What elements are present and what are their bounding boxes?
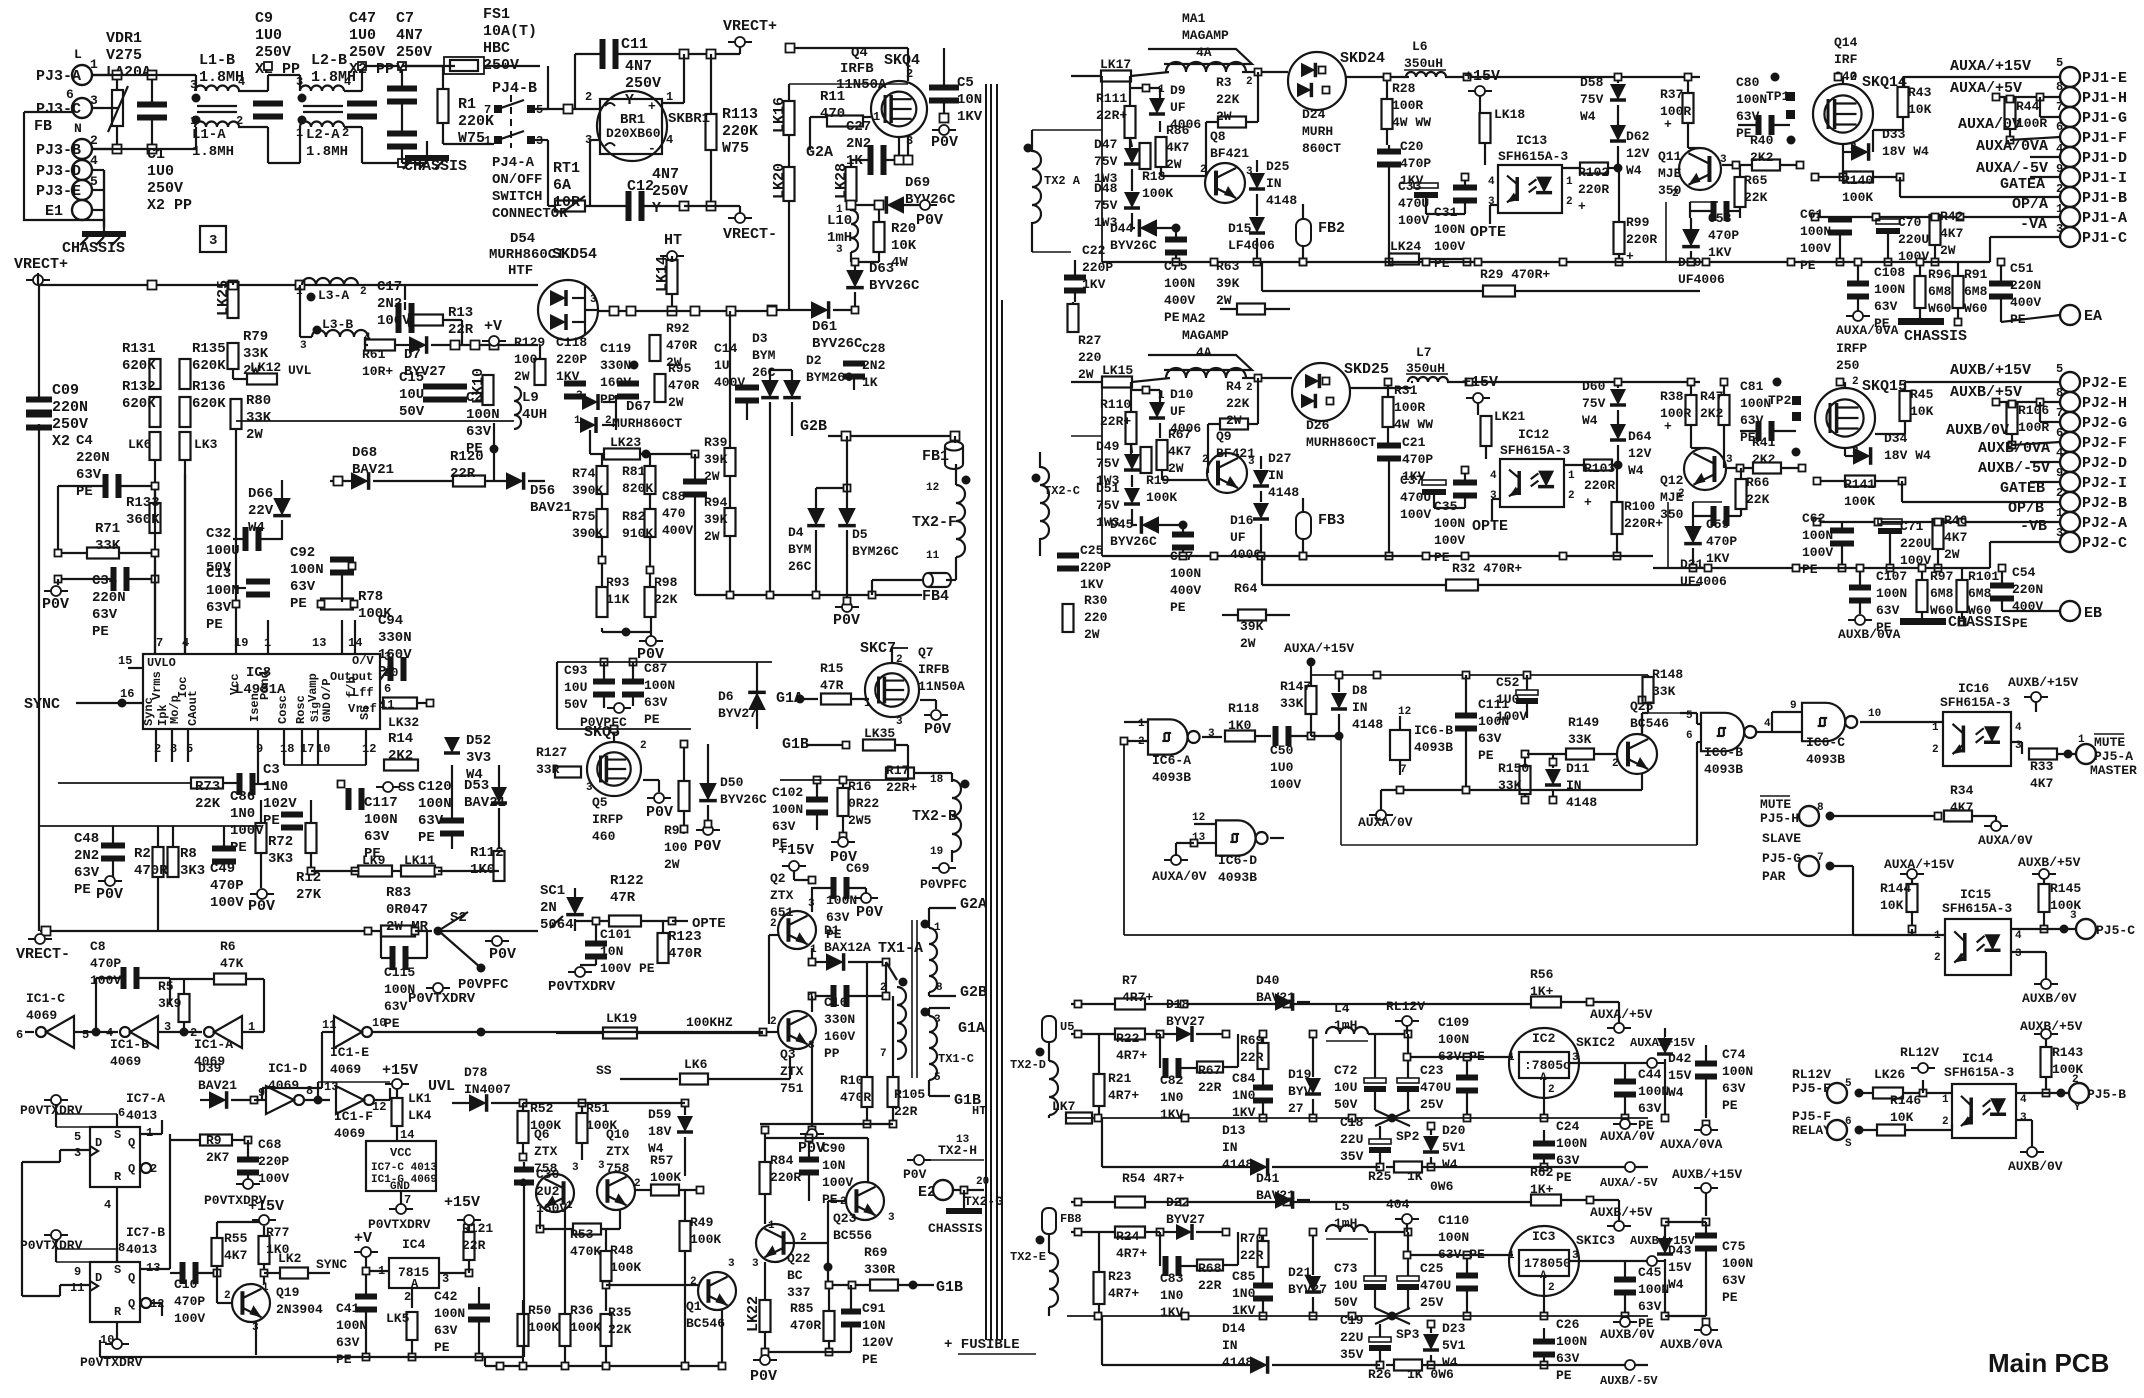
- svg-text:ZTX: ZTX: [770, 888, 794, 903]
- svg-text:4N7: 4N7: [625, 58, 652, 75]
- wire Q4 drain: [790, 47, 908, 49]
- svg-text:3K3: 3K3: [268, 851, 293, 867]
- resistor R13: [409, 315, 443, 326]
- svg-text:L3-B: L3-B: [322, 317, 353, 332]
- svg-text:22R: 22R: [1198, 1278, 1222, 1293]
- svg-text:6M8: 6M8: [1930, 586, 1954, 601]
- core L2: [303, 105, 343, 107]
- svg-text:AUXB/+15V: AUXB/+15V: [1672, 1167, 1742, 1182]
- svg-text:BAX12A: BAX12A: [824, 940, 871, 955]
- resistor R20: [874, 222, 885, 252]
- svg-text:2W: 2W: [1168, 461, 1184, 476]
- svg-text:MUTE: MUTE: [1760, 797, 1791, 812]
- svg-text:D51: D51: [1096, 481, 1120, 496]
- svg-text:2K2: 2K2: [1752, 452, 1776, 467]
- svg-text:+15V: +15V: [778, 842, 814, 859]
- gate IC6-B box: [1390, 730, 1410, 760]
- svg-text:3: 3: [586, 782, 593, 794]
- svg-text:R8: R8: [180, 846, 197, 862]
- svg-text:D9: D9: [1170, 83, 1186, 98]
- svg-text:6: 6: [1845, 1116, 1852, 1128]
- svg-text:IN: IN: [1268, 468, 1284, 483]
- svg-text:27: 27: [1288, 1101, 1304, 1116]
- svg-text:7: 7: [484, 103, 491, 117]
- svg-text:BAV21: BAV21: [198, 1078, 237, 1093]
- svg-text:EA: EA: [2084, 308, 2102, 325]
- svg-text:R62: R62: [1530, 1165, 1554, 1180]
- svg-text:PJ5-H: PJ5-H: [1760, 811, 1799, 826]
- node P0V Q5: [647, 797, 671, 799]
- svg-text:6: 6: [2056, 120, 2063, 134]
- svg-text:470: 470: [820, 106, 845, 122]
- switch PJ4-A: [494, 136, 502, 144]
- svg-text:OP/A: OP/A: [2012, 196, 2048, 213]
- svg-text:4: 4: [666, 133, 673, 147]
- svg-text:C69: C69: [846, 861, 870, 876]
- svg-text:10K: 10K: [1910, 404, 1934, 419]
- svg-text:HT: HT: [972, 1104, 986, 1118]
- svg-text:3: 3: [590, 294, 597, 306]
- svg-text:860CT: 860CT: [1302, 141, 1341, 156]
- svg-text:FB4: FB4: [922, 588, 949, 605]
- svg-text:BYM26C: BYM26C: [852, 544, 899, 559]
- svg-text:C35: C35: [1434, 499, 1458, 514]
- svg-text:R50: R50: [528, 1303, 552, 1318]
- capacitor C9: [253, 101, 283, 107]
- svg-text:9: 9: [1790, 700, 1797, 712]
- svg-text:W4: W4: [1668, 1277, 1684, 1292]
- ferrite bead FB4: [923, 573, 933, 587]
- svg-text:+15V: +15V: [1464, 68, 1500, 85]
- svg-text:5: 5: [74, 1130, 81, 1144]
- svg-text:C72: C72: [1334, 1063, 1358, 1078]
- ferrite bead FB1: [945, 442, 963, 451]
- IC IC8 L4981A: [143, 654, 380, 729]
- svg-text:IC1-B: IC1-B: [110, 1037, 149, 1052]
- svg-text:2: 2: [1200, 164, 1207, 176]
- svg-text:G2B: G2B: [800, 418, 827, 435]
- svg-text:LK23: LK23: [610, 435, 641, 450]
- svg-text:5: 5: [2056, 56, 2063, 70]
- svg-text:R135: R135: [192, 341, 226, 357]
- svg-text:D: D: [95, 1271, 102, 1285]
- svg-text:751: 751: [780, 1081, 804, 1096]
- svg-text:R17: R17: [886, 763, 909, 778]
- svg-text:AUXA/0V: AUXA/0V: [1600, 1129, 1655, 1144]
- svg-text:2: 2: [1672, 188, 1679, 200]
- svg-text:G2A: G2A: [960, 896, 987, 913]
- wire Q5 drain: [613, 729, 615, 742]
- svg-text:15V: 15V: [1668, 1068, 1692, 1083]
- svg-text:D26: D26: [1306, 418, 1330, 433]
- isolation barrier lines: [985, 84, 987, 1340]
- svg-text:22R+: 22R+: [886, 780, 917, 795]
- svg-text:D61: D61: [812, 319, 837, 335]
- svg-text:35V: 35V: [1340, 1149, 1364, 1164]
- svg-text:SP2: SP2: [1396, 1129, 1420, 1144]
- svg-text:15: 15: [118, 654, 132, 668]
- svg-text:PJ5-E: PJ5-E: [1792, 1081, 1831, 1096]
- svg-text:D16: D16: [1230, 513, 1254, 528]
- svg-text:9: 9: [74, 1265, 81, 1279]
- svg-text:RL12V: RL12V: [1386, 999, 1425, 1014]
- svg-text:IN: IN: [1352, 700, 1368, 715]
- svg-text:4K7: 4K7: [1166, 140, 1189, 155]
- svg-text:10A(T): 10A(T): [483, 23, 537, 40]
- svg-text:C42: C42: [434, 1289, 458, 1304]
- svg-text:G1A: G1A: [958, 1020, 985, 1037]
- svg-text:100V PE: 100V PE: [600, 961, 655, 976]
- svg-text:+V: +V: [484, 318, 502, 335]
- svg-text:AUXB/0V: AUXB/0V: [2022, 991, 2077, 1006]
- svg-text:100V: 100V: [1496, 709, 1527, 724]
- svg-text:3: 3: [728, 1258, 735, 1270]
- inductor L3-B: [312, 330, 368, 337]
- svg-text:2W: 2W: [1240, 636, 1256, 651]
- svg-text:7: 7: [2056, 406, 2063, 420]
- svg-text:SKIC3: SKIC3: [1576, 1233, 1615, 1248]
- wire L1A out: [238, 126, 268, 128]
- svg-text:LK35: LK35: [864, 726, 895, 741]
- svg-text:R2: R2: [134, 846, 151, 862]
- svg-text:6A: 6A: [553, 177, 571, 194]
- svg-text:Sync: Sync: [142, 697, 156, 726]
- svg-text:2: 2: [2072, 1074, 2079, 1086]
- svg-text:100K: 100K: [690, 1232, 721, 1247]
- svg-text:UF4006: UF4006: [1678, 272, 1725, 287]
- svg-text:BYV26C: BYV26C: [869, 278, 920, 294]
- svg-text:R14: R14: [388, 731, 413, 747]
- svg-text:100N: 100N: [418, 796, 452, 812]
- svg-text:220: 220: [1078, 350, 1102, 365]
- svg-text:O/V: O/V: [352, 654, 374, 668]
- svg-text:R46: R46: [1944, 513, 1968, 528]
- svg-text:5: 5: [2056, 362, 2063, 376]
- svg-text:IN: IN: [1222, 1338, 1238, 1353]
- svg-text:R16: R16: [848, 779, 872, 794]
- svg-text:P0VTXDRV: P0VTXDRV: [368, 1217, 431, 1232]
- svg-text:R97: R97: [1930, 569, 1953, 584]
- svg-text:R19: R19: [1146, 473, 1170, 488]
- svg-text:R66: R66: [1746, 475, 1770, 490]
- svg-text:SKQ14: SKQ14: [1862, 74, 1907, 91]
- svg-text:AUXA/0V: AUXA/0V: [1958, 116, 2021, 133]
- svg-text:4R7+: 4R7+: [1108, 1088, 1139, 1103]
- flipflop IC7-A 4013: [90, 1127, 140, 1187]
- svg-text:R42: R42: [1940, 209, 1964, 224]
- chassis ground input: [103, 217, 105, 231]
- svg-text:2U2: 2U2: [536, 1184, 560, 1199]
- svg-text:PE: PE: [1722, 1098, 1738, 1113]
- svg-text:PE: PE: [1434, 550, 1450, 565]
- svg-text:2N2: 2N2: [862, 358, 886, 373]
- svg-text:4148: 4148: [1268, 485, 1299, 500]
- svg-text:BAV21: BAV21: [530, 500, 572, 516]
- svg-text:P0V: P0V: [248, 898, 275, 915]
- svg-text:P0V: P0V: [798, 1140, 825, 1157]
- svg-text:C85: C85: [1232, 1269, 1256, 1284]
- svg-text:7: 7: [1817, 852, 1824, 864]
- svg-text:W75: W75: [722, 140, 749, 157]
- svg-text:4K7: 4K7: [1168, 444, 1191, 459]
- svg-text:GND: GND: [322, 702, 334, 722]
- svg-text:C3: C3: [263, 762, 280, 778]
- svg-text:10N: 10N: [822, 1158, 845, 1173]
- wire B left rail: [1101, 382, 1103, 556]
- svg-text:R112: R112: [470, 845, 504, 861]
- svg-text:3: 3: [74, 1146, 81, 1160]
- svg-text:R78: R78: [358, 589, 383, 605]
- svg-text:Mo/p: Mo/p: [168, 695, 182, 724]
- svg-text:220K: 220K: [722, 123, 758, 140]
- svg-text:R148: R148: [1652, 667, 1683, 682]
- svg-text:IC4: IC4: [402, 1237, 426, 1252]
- svg-text:SP3: SP3: [1396, 1327, 1420, 1342]
- svg-text:D4: D4: [788, 525, 804, 540]
- svg-text:IC3: IC3: [1532, 1229, 1556, 1244]
- svg-text:250V: 250V: [652, 183, 688, 200]
- svg-text:1U0: 1U0: [1270, 760, 1294, 775]
- svg-text:HT: HT: [664, 232, 682, 249]
- svg-text:22U: 22U: [1340, 1330, 1363, 1345]
- svg-text:1U0: 1U0: [349, 27, 376, 44]
- svg-text:R4: R4: [1226, 379, 1242, 394]
- svg-text:IC7-B: IC7-B: [126, 1225, 165, 1240]
- svg-text:PE: PE: [822, 1192, 838, 1207]
- svg-text:UF: UF: [1230, 530, 1246, 545]
- svg-text:9: 9: [2056, 466, 2063, 480]
- svg-text:PJ2-F: PJ2-F: [2082, 435, 2127, 452]
- svg-text:BAV21: BAV21: [352, 462, 394, 478]
- svg-text:1: 1: [836, 204, 843, 216]
- link LK15: [1102, 377, 1132, 388]
- connector PJ3-E: [72, 180, 92, 200]
- svg-text:R40: R40: [1750, 133, 1774, 148]
- svg-text:5: 5: [1686, 710, 1693, 722]
- svg-text:C13: C13: [206, 566, 231, 582]
- wire 0V rail IC2: [1067, 1117, 1648, 1119]
- svg-text:100V: 100V: [1800, 241, 1831, 256]
- svg-text:R91: R91: [1964, 267, 1988, 282]
- svg-text:R79: R79: [243, 329, 268, 345]
- diode D5 BYM26C: [838, 508, 856, 526]
- svg-text:AUXB/+15V: AUXB/+15V: [1950, 362, 2031, 379]
- svg-text:100V: 100V: [1900, 553, 1931, 568]
- svg-text:100V: 100V: [1400, 507, 1431, 522]
- svg-text:R10: R10: [840, 1073, 864, 1088]
- svg-text:AUXA/+5V: AUXA/+5V: [1590, 1007, 1653, 1022]
- svg-text:2: 2: [1678, 488, 1685, 500]
- svg-text:C101: C101: [600, 927, 631, 942]
- svg-text:IC12: IC12: [1518, 427, 1549, 442]
- svg-text:2W: 2W: [704, 529, 720, 544]
- svg-text:50V: 50V: [1334, 1295, 1358, 1310]
- svg-text:+: +: [1664, 419, 1672, 434]
- svg-text:SKQ4: SKQ4: [884, 52, 920, 69]
- svg-text:P0V: P0V: [931, 134, 958, 151]
- svg-text:BC546: BC546: [1630, 716, 1669, 731]
- svg-text:P0V: P0V: [833, 612, 860, 629]
- svg-text:L5: L5: [1334, 1199, 1350, 1214]
- svg-text:470P: 470P: [1400, 156, 1431, 171]
- connector EA: [2001, 315, 2060, 322]
- svg-text:3: 3: [2070, 910, 2077, 922]
- svg-text:4: 4: [104, 1198, 111, 1212]
- svg-text:63V: 63V: [1556, 1351, 1580, 1366]
- svg-text:250V: 250V: [255, 44, 291, 61]
- svg-text:33K: 33K: [1652, 684, 1676, 699]
- svg-text:Q19: Q19: [276, 1285, 300, 1300]
- svg-text:+: +: [1664, 117, 1672, 132]
- svg-text:360K: 360K: [126, 512, 160, 528]
- svg-text:102V: 102V: [263, 796, 297, 812]
- svg-text:AUXA/-5V: AUXA/-5V: [1976, 160, 2048, 177]
- svg-text:R20: R20: [891, 221, 916, 237]
- svg-text:100K: 100K: [1142, 186, 1173, 201]
- capacitor C09: [26, 397, 52, 403]
- svg-text:4W WW: 4W WW: [1394, 417, 1433, 432]
- svg-text:33K: 33K: [1280, 696, 1304, 711]
- svg-text:P0V: P0V: [489, 946, 516, 963]
- connector PJ3-A: [72, 65, 92, 85]
- svg-text:470P: 470P: [1402, 452, 1433, 467]
- svg-text:63V: 63V: [336, 1335, 360, 1350]
- svg-text:100N: 100N: [336, 1318, 367, 1333]
- svg-text:3: 3: [300, 340, 307, 352]
- svg-text:PJ1-F: PJ1-F: [2082, 130, 2127, 147]
- svg-text:13: 13: [312, 636, 326, 650]
- svg-text:PE: PE: [1556, 1170, 1572, 1185]
- svg-text:100N: 100N: [1438, 1230, 1469, 1245]
- svg-text:100N: 100N: [434, 1306, 465, 1321]
- svg-text:11K: 11K: [606, 592, 630, 607]
- svg-text:2K2: 2K2: [1700, 406, 1724, 421]
- svg-text:CHASSIS: CHASSIS: [62, 240, 125, 257]
- svg-text:337: 337: [787, 1285, 810, 1300]
- node P0V dividers: [639, 640, 663, 642]
- svg-text:C7: C7: [396, 10, 414, 27]
- svg-text:8: 8: [936, 982, 943, 994]
- svg-text:11: 11: [322, 1018, 336, 1032]
- diode D56 BAV21: [506, 472, 524, 490]
- svg-text:LK7: LK7: [1052, 1099, 1075, 1114]
- svg-text:AUXA/0VA: AUXA/0VA: [1660, 1137, 1723, 1152]
- svg-text:LK22: LK22: [745, 1296, 762, 1332]
- svg-text:12V: 12V: [1626, 146, 1650, 161]
- svg-text:SS: SS: [358, 706, 372, 720]
- svg-text:IC6-D: IC6-D: [1218, 853, 1257, 868]
- svg-text:100V: 100V: [174, 1311, 205, 1326]
- svg-text:20: 20: [976, 1176, 989, 1188]
- svg-text:75V: 75V: [1096, 456, 1120, 471]
- svg-text:D66: D66: [248, 486, 273, 502]
- link LK16: [784, 101, 795, 135]
- svg-text:R41: R41: [1752, 435, 1776, 450]
- rectifier SKD25: [1292, 363, 1350, 421]
- svg-text:4R7+: 4R7+: [1116, 1246, 1147, 1261]
- svg-text:C102: C102: [772, 785, 803, 800]
- svg-text:C17: C17: [377, 279, 402, 295]
- connector PJ3-D: [72, 160, 92, 180]
- svg-text:2W: 2W: [668, 395, 684, 410]
- svg-text:Q2: Q2: [770, 871, 786, 886]
- svg-text:PJ1-I: PJ1-I: [2082, 170, 2127, 187]
- svg-text:470P: 470P: [174, 1294, 205, 1309]
- wire A mid rail: [1102, 261, 1653, 263]
- svg-text:63V: 63V: [1722, 1273, 1746, 1288]
- svg-text:1: 1: [1568, 470, 1575, 482]
- svg-text:L2-B: L2-B: [311, 52, 347, 69]
- svg-text:1: 1: [1932, 722, 1939, 734]
- node AUXA/-5V: [1625, 1166, 1648, 1168]
- svg-text:R131: R131: [122, 341, 156, 357]
- svg-text:AUXA/+5V: AUXA/+5V: [1950, 80, 2022, 97]
- svg-text:8: 8: [1817, 802, 1824, 814]
- svg-text:MAGAMP: MAGAMP: [1182, 328, 1229, 343]
- svg-text:R23: R23: [1108, 1269, 1132, 1284]
- svg-text:RELAY: RELAY: [1792, 1123, 1831, 1138]
- wire IC7A pins: [60, 1149, 90, 1151]
- svg-text:X2 PP: X2 PP: [255, 61, 300, 78]
- inverter IC1-B: [130, 1016, 158, 1048]
- svg-text:C14: C14: [714, 341, 738, 356]
- svg-text:3: 3: [576, 390, 583, 402]
- svg-text:470P: 470P: [210, 878, 244, 894]
- svg-text:C9: C9: [255, 10, 273, 27]
- svg-text:63V: 63V: [1556, 1153, 1580, 1168]
- svg-text:C21: C21: [1402, 435, 1426, 450]
- svg-text:2: 2: [520, 1178, 527, 1190]
- svg-text:1N0: 1N0: [263, 779, 288, 795]
- transformer TX2-B: [952, 780, 961, 852]
- svg-text:2W: 2W: [1078, 367, 1094, 382]
- diode D67 MURH860CT: [582, 394, 598, 410]
- wire mid rail: [695, 594, 922, 596]
- svg-text:P0VPFC: P0VPFC: [920, 877, 967, 892]
- svg-text:470R: 470R: [666, 338, 697, 353]
- svg-text:330N: 330N: [600, 358, 631, 373]
- svg-text:PE: PE: [1800, 258, 1816, 273]
- svg-text:D68: D68: [352, 445, 377, 461]
- svg-text:100N: 100N: [1876, 586, 1907, 601]
- svg-text:PJ5-C: PJ5-C: [2096, 923, 2135, 938]
- node P0VPFC: [477, 964, 486, 973]
- svg-text:2: 2: [1548, 1282, 1555, 1294]
- svg-text:CHASSIS: CHASSIS: [1948, 614, 2011, 631]
- svg-text:R106: R106: [2018, 403, 2049, 418]
- svg-text:R123: R123: [668, 929, 702, 945]
- svg-text:MAGAMP: MAGAMP: [1182, 28, 1229, 43]
- svg-text:TX2-C: TX2-C: [1044, 484, 1080, 498]
- svg-text:HBC: HBC: [483, 40, 510, 57]
- wire PJ3-D/E/E1 to chassis: [103, 170, 105, 227]
- svg-text:22R: 22R: [1198, 1080, 1222, 1095]
- svg-text:4013: 4013: [126, 1242, 157, 1257]
- svg-text:C27: C27: [846, 119, 871, 135]
- svg-text:Q22: Q22: [787, 1251, 811, 1266]
- svg-text:OPTE: OPTE: [1472, 518, 1508, 535]
- svg-text:AUXB/0VA: AUXB/0VA: [1978, 440, 2050, 457]
- svg-text:R1: R1: [458, 96, 476, 113]
- svg-text:D18: D18: [1166, 997, 1190, 1012]
- svg-text:3: 3: [896, 716, 903, 728]
- svg-text:100K: 100K: [1844, 494, 1875, 509]
- svg-text:R74: R74: [572, 466, 596, 481]
- svg-text:2N2: 2N2: [74, 848, 99, 864]
- svg-text:D64: D64: [1628, 429, 1652, 444]
- svg-text:AUXB/-5V: AUXB/-5V: [1600, 1374, 1658, 1388]
- svg-text:C12: C12: [627, 178, 654, 195]
